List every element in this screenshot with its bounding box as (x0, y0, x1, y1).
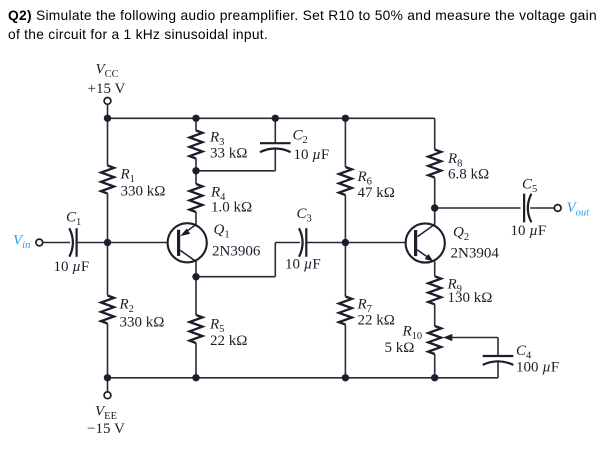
resistor R6 (339, 167, 352, 195)
node R3 / R4 / C2 (192, 167, 199, 174)
svg-text:33 kΩ: 33 kΩ (210, 146, 247, 162)
resistor R9 (428, 276, 441, 304)
wire VEE stub (107, 378, 109, 392)
wire R6 to R7 (344, 195, 346, 297)
wire rail to C2 (274, 118, 276, 143)
wire Q2 emitter to R9 (434, 262, 436, 277)
wire left rail upper (107, 118, 109, 165)
wire C2 to corner (274, 148, 276, 171)
wire left rail lower (107, 324, 109, 378)
capacitor C3 (299, 228, 306, 257)
wire C4 to bottom rail (497, 362, 499, 378)
node input / R1 / R2 / Q1 base (104, 239, 111, 246)
wire R10 to bottom rail (434, 354, 436, 378)
terminal Vout (554, 205, 561, 212)
svg-text:330 kΩ: 330 kΩ (120, 315, 165, 331)
capacitor C1 (69, 228, 76, 257)
wire rail to R6 (344, 118, 346, 167)
svg-text:R2: R2 (119, 297, 134, 316)
resistor R3 (190, 131, 203, 159)
wire R7 to bottom rail (344, 325, 346, 378)
wire node to R4 (195, 171, 197, 184)
wire top VCC rail (108, 117, 435, 119)
transistor Q1 (PNP 2N3906) (168, 223, 207, 262)
svg-text:Q1: Q1 (214, 222, 230, 241)
wire up to C3 line (274, 243, 276, 277)
svg-text:2N3904: 2N3904 (451, 245, 500, 261)
svg-text:C1: C1 (66, 210, 81, 229)
svg-text:10 µF: 10 µF (511, 223, 547, 239)
node VEE rail / R7 (342, 374, 349, 381)
wire collector to C5 (435, 207, 521, 209)
node Q2 collector / R8 / C5 (431, 204, 438, 211)
wire R5 to bottom rail (195, 343, 197, 378)
wire Q1 collector lead (195, 261, 197, 276)
capacitor C2 (260, 143, 291, 152)
wire rail to R3 (195, 118, 197, 130)
svg-text:VCC: VCC (96, 62, 119, 81)
svg-text:100 µF: 100 µF (516, 360, 559, 376)
node VCC rail / R3 (192, 115, 199, 122)
svg-text:22 kΩ: 22 kΩ (210, 333, 247, 349)
wire R3 to node (195, 159, 197, 171)
wire R8 to collector node (434, 178, 436, 208)
terminal Vin (36, 239, 43, 246)
svg-text:330 kΩ: 330 kΩ (121, 183, 166, 199)
svg-text:VEE: VEE (95, 404, 117, 423)
capacitor C5 (524, 194, 531, 223)
svg-text:5 kΩ: 5 kΩ (385, 340, 415, 356)
svg-text:10 µF: 10 µF (294, 147, 330, 163)
node VEE rail / R2 (104, 374, 111, 381)
svg-text:C2: C2 (293, 128, 308, 147)
svg-text:+15 V: +15 V (88, 81, 126, 97)
node VCC rail / R1 (104, 115, 111, 122)
terminal VCC (104, 98, 111, 105)
svg-text:Q2: Q2 (453, 225, 469, 244)
wire R4 to Q1 emitter (195, 212, 197, 225)
resistor R7 (339, 297, 352, 325)
node VCC rail / R6 (342, 115, 349, 122)
transistor Q2 (NPN 2N3904) (406, 223, 445, 262)
wire C1 to node (77, 242, 108, 244)
wire rail corner to R8 (434, 118, 436, 149)
svg-text:C3: C3 (297, 206, 312, 225)
wire R10 wiper to C4 (451, 337, 498, 339)
resistor R8 (428, 150, 441, 178)
node VEE rail / R10 (431, 374, 438, 381)
wire collector node to Q2 (434, 208, 436, 225)
R10 wiper arrow (443, 334, 452, 341)
wire R9 to R10 (434, 304, 436, 326)
wire left rail mid (107, 194, 109, 296)
wire collector node right (196, 276, 275, 278)
wire bottom VEE rail (108, 377, 499, 379)
resistor R5 (190, 315, 203, 343)
wire Vin to C1 (43, 242, 70, 244)
wire node to Q1 base (108, 242, 178, 244)
svg-text:6.8 kΩ: 6.8 kΩ (448, 167, 489, 183)
svg-text:C5: C5 (522, 177, 537, 196)
resistor R2 (101, 296, 114, 324)
wire to C3 (275, 242, 300, 244)
node R6 / R7 / Q2 base (342, 239, 349, 246)
svg-text:10 µF: 10 µF (285, 257, 321, 273)
wire VCC stub (107, 105, 109, 119)
node VEE rail / R5 (192, 374, 199, 381)
terminal VEE (104, 392, 111, 399)
svg-text:Vin: Vin (13, 233, 30, 252)
svg-text:47 kΩ: 47 kΩ (358, 185, 395, 201)
svg-text:10 µF: 10 µF (54, 259, 90, 275)
node Q1 collector / R5 (192, 273, 199, 280)
svg-text:130 kΩ: 130 kΩ (448, 290, 493, 306)
problem statement text (8, 7, 600, 44)
resistor R4 (190, 184, 203, 212)
resistor R10 (428, 326, 441, 354)
wire C5 to Vout (530, 207, 554, 209)
svg-text:R1: R1 (120, 167, 135, 186)
resistor R1 (101, 166, 114, 194)
svg-text:−15 V: −15 V (87, 421, 125, 437)
svg-text:Vout: Vout (567, 200, 591, 219)
wire collector node to R5 (195, 277, 197, 315)
svg-text:1.0 kΩ: 1.0 kΩ (211, 199, 252, 215)
wire down to C4 (497, 338, 499, 357)
wire C3 to Q2 base (306, 242, 406, 244)
capacitor C4 (483, 356, 514, 365)
svg-text:2N3906: 2N3906 (212, 243, 261, 259)
wire C2 bottom to node (196, 170, 275, 172)
svg-text:22 kΩ: 22 kΩ (358, 313, 395, 329)
node VCC rail / C2 (272, 115, 279, 122)
